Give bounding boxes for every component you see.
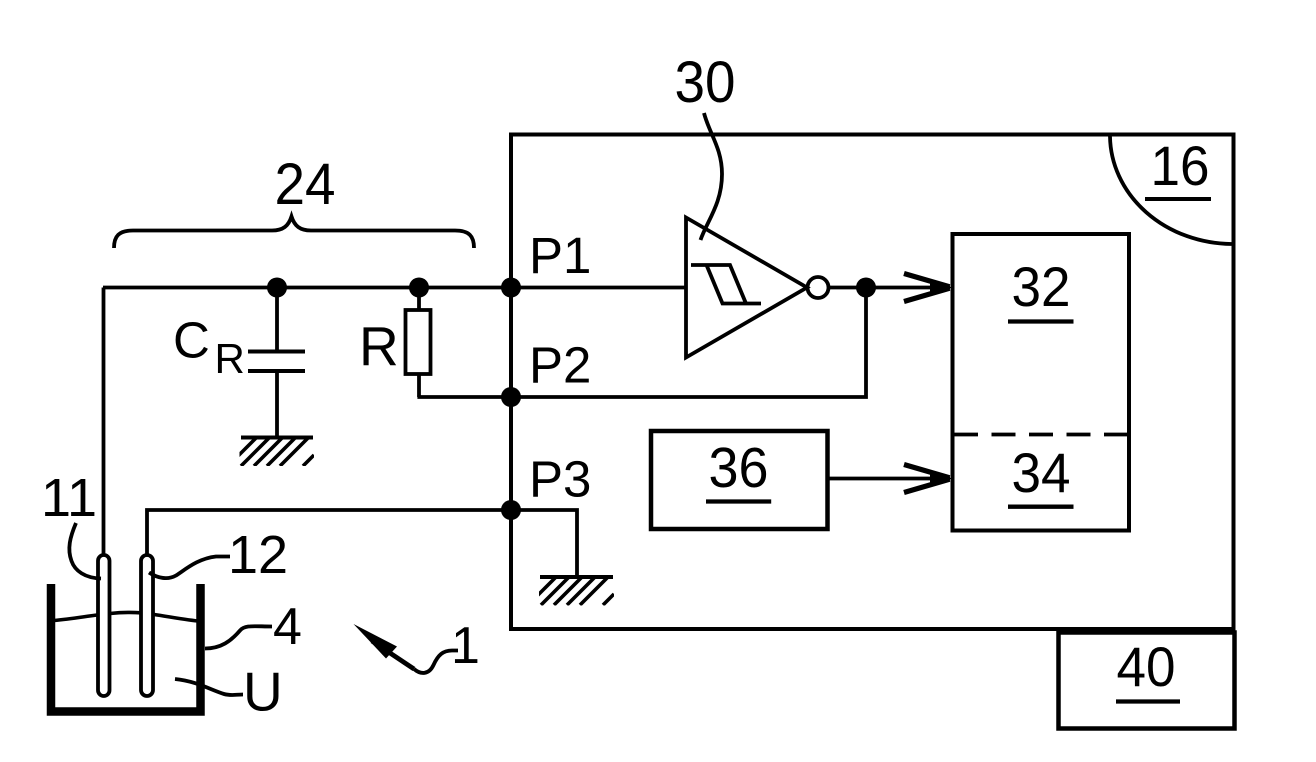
label 32 xyxy=(1008,255,1074,322)
wire: P3 to internal ground xyxy=(511,510,577,575)
svg-text:40: 40 xyxy=(1117,635,1176,698)
arrowhead into box 32 xyxy=(904,274,952,302)
wire: inverter output to box 32 xyxy=(829,286,951,290)
box 32/34 xyxy=(953,234,1130,531)
svg-text:P2: P2 xyxy=(529,337,591,394)
label 34 xyxy=(1008,441,1074,507)
wire: feedback from output to P2 xyxy=(511,288,866,398)
svg-text:34: 34 xyxy=(1012,441,1071,504)
svg-text:12: 12 xyxy=(228,525,288,585)
box 40 xyxy=(1059,633,1235,729)
svg-text:P3: P3 xyxy=(529,451,591,508)
liquid level U xyxy=(54,613,198,621)
svg-text:16: 16 xyxy=(1151,134,1210,197)
resistor R xyxy=(406,288,431,398)
ground (internal, below P3) xyxy=(528,575,614,605)
arrowhead into box 34 xyxy=(904,465,952,493)
junction node at resistor top xyxy=(409,278,429,298)
electrode 11 xyxy=(98,555,110,696)
junction node P2 xyxy=(501,387,521,407)
label 4 with leader xyxy=(205,598,302,656)
label 12 with leader xyxy=(149,525,288,585)
brace 24 xyxy=(114,217,474,249)
label 16 xyxy=(1145,134,1211,199)
svg-text:24: 24 xyxy=(275,152,336,217)
svg-text:32: 32 xyxy=(1012,255,1071,318)
beaker 4 xyxy=(51,584,201,712)
svg-text:4: 4 xyxy=(273,598,302,656)
label 40 xyxy=(1116,635,1180,702)
wire: resistor bottom to P2 xyxy=(417,395,511,399)
label U with leader xyxy=(175,661,283,723)
wire: P3 net from electrode 12 xyxy=(147,510,511,557)
svg-text:1: 1 xyxy=(451,617,480,675)
label 30 with leader xyxy=(675,50,736,240)
junction node P3 xyxy=(501,500,521,520)
box 36 xyxy=(651,431,828,529)
label 1 with leader arrow xyxy=(354,617,480,675)
corner arc for label 16 xyxy=(1110,137,1232,245)
label 11 with leader xyxy=(41,468,101,579)
svg-text:R: R xyxy=(215,335,245,382)
junction node at output xyxy=(856,278,876,298)
wire: left vertical down to electrode 11 xyxy=(102,288,106,558)
svg-text:30: 30 xyxy=(675,50,736,115)
svg-text:P1: P1 xyxy=(529,227,591,284)
svg-text:U: U xyxy=(243,661,283,723)
junction node P1 xyxy=(501,278,521,298)
dashed divider between 32 and 34 xyxy=(954,433,1129,437)
schmitt trigger inverter 30 xyxy=(686,218,829,358)
capacitor C_R xyxy=(248,288,305,437)
wire: P1 net horizontal xyxy=(103,286,686,290)
svg-text:36: 36 xyxy=(709,436,769,500)
label C_R xyxy=(173,312,245,383)
svg-text:C: C xyxy=(173,312,210,369)
label 36 xyxy=(706,436,771,502)
enclosure box 16 xyxy=(511,135,1234,630)
electrode 12 xyxy=(141,555,153,696)
wire: box 36 to box 34 xyxy=(829,477,950,481)
ground (below C_R) xyxy=(228,436,314,466)
svg-text:11: 11 xyxy=(41,468,97,528)
junction node at capacitor top xyxy=(267,278,287,298)
svg-text:R: R xyxy=(359,315,399,377)
